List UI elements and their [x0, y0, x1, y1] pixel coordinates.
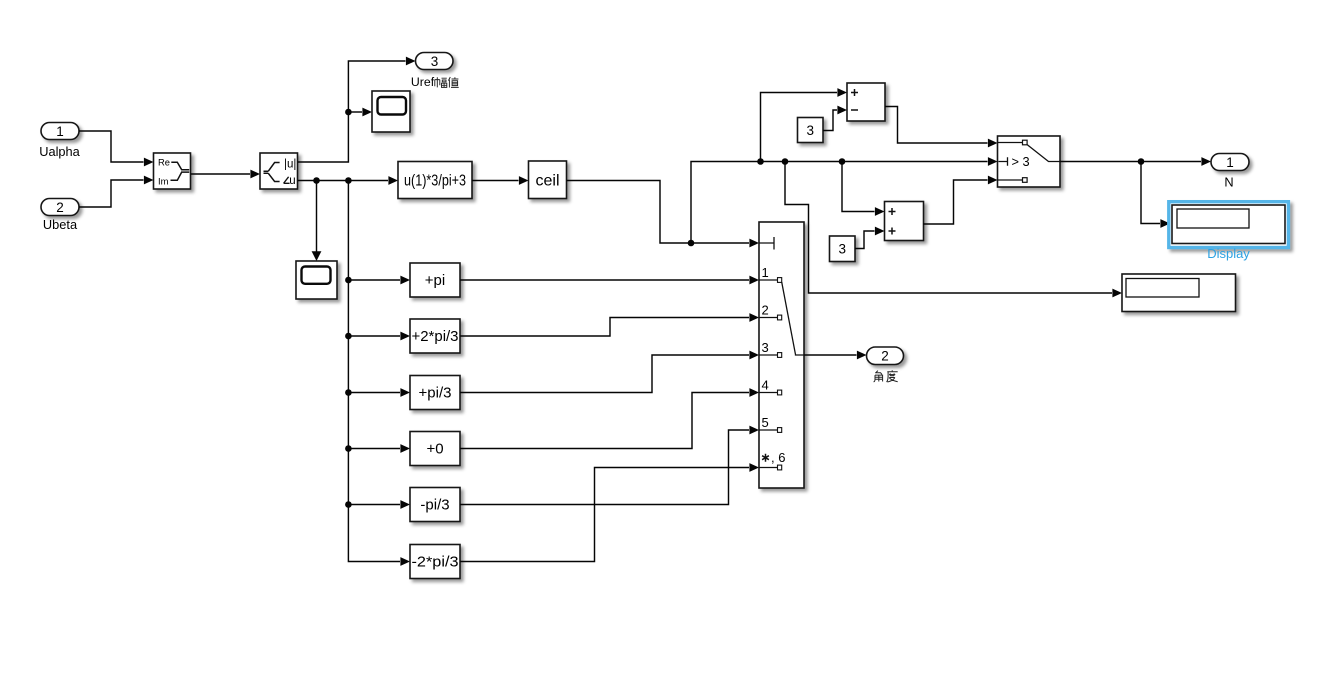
scope block Scope1: [372, 91, 410, 132]
svg-text:1: 1: [1226, 155, 1234, 170]
svg-text:3: 3: [838, 242, 846, 257]
wire -2*pi/3 to port6: [460, 463, 759, 561]
star comma 6 label: [762, 454, 769, 462]
svg-text:+0: +0: [426, 440, 443, 457]
multiport switch block: [759, 222, 804, 488]
junction N line to display2: [782, 158, 1122, 297]
bias block +2*pi/3: [410, 319, 460, 353]
svg-text:1: 1: [56, 124, 64, 139]
svg-text:Ubeta: Ubeta: [43, 217, 78, 232]
CJK glyph fu (width): [435, 77, 447, 87]
svg-text:u: u: [289, 175, 295, 187]
junction angle line to scope2: [312, 177, 322, 261]
svg-text:3: 3: [762, 340, 769, 355]
svg-text:1: 1: [762, 265, 769, 280]
svg-text:2: 2: [881, 349, 889, 364]
wire Ubeta to Im input: [79, 176, 154, 207]
outport 3 Uref: [411, 53, 459, 90]
svg-text:4: 4: [762, 377, 769, 392]
bias block -2*pi/3: [410, 545, 460, 579]
svg-text:-pi/3: -pi/3: [420, 496, 449, 513]
svg-text:u(1)*3/pi+3: u(1)*3/pi+3: [404, 172, 466, 189]
constant 3 upper: [798, 118, 824, 143]
junction bus to bias +0: [345, 444, 410, 453]
wire +pi/3 to port3: [460, 351, 759, 393]
svg-text:-2*pi/3: -2*pi/3: [412, 553, 459, 570]
wire Real-Imag out to Complex-to-MagAngle in: [191, 170, 261, 179]
inport 1 Ualpha: [39, 123, 80, 160]
CJK glyph zhi (value): [448, 77, 458, 88]
bias block +pi/3: [410, 376, 460, 410]
outport 2 angle: [867, 347, 904, 382]
svg-text:+2*pi/3: +2*pi/3: [412, 328, 459, 345]
svg-text:> 3: > 3: [1012, 154, 1030, 169]
sum block add: [885, 202, 924, 241]
svg-text:2: 2: [56, 200, 64, 215]
block ceil: [529, 161, 567, 199]
bias block -pi/3: [410, 488, 460, 522]
wire switch out to outport N: [1060, 157, 1211, 166]
svg-text:Display: Display: [1207, 246, 1250, 261]
CJK glyph jiao (angle): [874, 371, 883, 382]
outport 1 N: [1211, 154, 1249, 190]
svg-text:+pi/3: +pi/3: [419, 384, 452, 401]
junction N line to add sum: [839, 158, 885, 216]
svg-text:Ualpha: Ualpha: [39, 144, 80, 159]
svg-text:, 6: , 6: [771, 450, 785, 465]
block Complex to Magnitude-Angle: [260, 153, 298, 189]
svg-text:5: 5: [762, 415, 769, 430]
svg-text:ceil: ceil: [535, 173, 559, 190]
display block lower: [1122, 274, 1236, 312]
junction bus to bias +pi/3: [345, 388, 410, 397]
switch block greater than 3: [998, 136, 1061, 187]
svg-text:|u|: |u|: [284, 159, 296, 171]
wire +0 to port4: [460, 388, 759, 448]
junction bus to bias -pi/3: [345, 500, 410, 509]
wire Fcn to ceil: [472, 176, 529, 185]
wire |u| out to Uref outport and scope branch: [298, 57, 416, 162]
wire constant3 upper to sum minus input: [823, 106, 847, 131]
wire +2*pi/3 to port2: [460, 313, 759, 336]
sum block minus: [847, 83, 885, 121]
junction angle line to bias bus: [345, 177, 410, 566]
wire multiport switch out to outport 2: [804, 351, 867, 360]
wire constant3 lower to sum add input: [855, 227, 885, 249]
wire Ualpha to Re input: [79, 131, 154, 166]
svg-text:3: 3: [806, 123, 814, 138]
svg-text:Uref: Uref: [411, 75, 435, 89]
svg-text:3: 3: [431, 54, 439, 69]
inport 2 Ubeta: [41, 199, 79, 233]
svg-text:Re: Re: [158, 156, 170, 167]
svg-text:Im: Im: [158, 176, 169, 187]
constant 3 lower: [830, 236, 856, 262]
block Fcn u(1)*3/pi+3: [398, 162, 472, 199]
junction control line up to N line: [688, 157, 998, 246]
display block Display selected: [1169, 202, 1289, 261]
wire angle out to Fcn: [298, 176, 399, 185]
svg-text:N: N: [1224, 175, 1233, 190]
junction bus to bias +pi: [345, 276, 410, 285]
svg-text:+pi: +pi: [425, 272, 445, 289]
junction bus to bias +2*pi/3: [345, 332, 410, 341]
bias block +pi: [410, 263, 460, 297]
svg-text:2: 2: [762, 302, 769, 317]
junction switch out to display1: [1138, 158, 1170, 228]
junction N line to subtract sum: [757, 88, 847, 165]
wire sum add out to switch input 3: [923, 176, 998, 224]
bias block +0: [410, 432, 460, 466]
scope block Scope2: [296, 261, 337, 299]
junction at |u| line to scope1: [345, 108, 372, 117]
CJK glyph du (degree): [887, 370, 898, 382]
block Real-Imag to Complex: [154, 153, 191, 189]
wire ceil to multiport switch control: [567, 181, 760, 248]
wire sum minus out to switch input 1: [885, 107, 998, 148]
wire +pi to port1: [460, 276, 759, 285]
wire -pi/3 to port5: [460, 426, 759, 505]
